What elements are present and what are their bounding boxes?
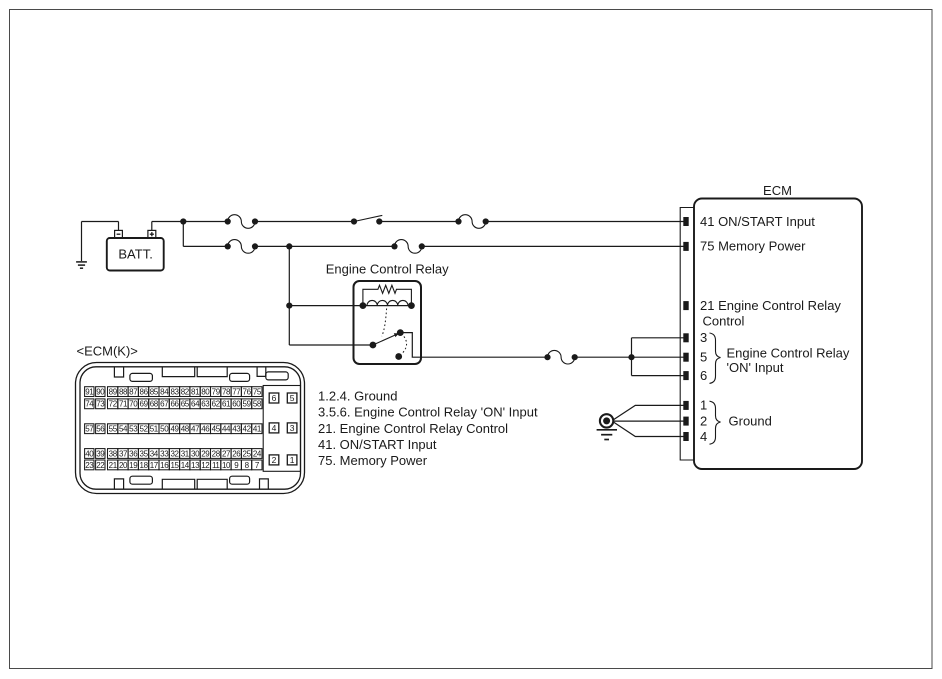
wire ground to battery negative	[82, 222, 119, 231]
svg-text:84: 84	[160, 387, 169, 396]
svg-text:12: 12	[201, 461, 210, 470]
svg-text:6: 6	[272, 393, 277, 403]
svg-text:77: 77	[232, 387, 241, 396]
wire J2 branch to relay switch common	[289, 344, 373, 346]
svg-text:88: 88	[119, 387, 128, 396]
svg-text:BATT.: BATT.	[118, 246, 152, 261]
svg-text:87: 87	[129, 387, 138, 396]
svg-text:68: 68	[150, 400, 159, 409]
ECM box U1	[694, 199, 862, 470]
svg-text:73: 73	[96, 400, 105, 409]
svg-text:6: 6	[700, 368, 707, 383]
svg-text:30: 30	[191, 449, 200, 458]
svg-text:15: 15	[170, 461, 179, 470]
pin 21 terminal	[683, 301, 688, 310]
svg-text:74: 74	[85, 400, 94, 409]
connector pin row 40-24	[85, 449, 262, 459]
connector bottom notches	[114, 476, 268, 489]
svg-text:67: 67	[160, 400, 169, 409]
svg-text:27: 27	[222, 449, 231, 458]
svg-text:83: 83	[170, 387, 179, 396]
svg-text:21. Engine Control Relay Contr: 21. Engine Control Relay Control	[318, 421, 508, 436]
svg-text:25: 25	[243, 449, 252, 458]
ECM title	[763, 183, 792, 198]
pin 41 terminal	[683, 217, 688, 226]
pin 41 label	[700, 214, 815, 229]
legend pin list	[318, 388, 538, 468]
pin 4 terminal	[683, 432, 688, 441]
wire ground to pin 1	[613, 405, 683, 419]
pin 2 label	[700, 413, 707, 428]
svg-text:47: 47	[191, 425, 200, 434]
svg-text:Control: Control	[703, 314, 745, 329]
svg-text:33: 33	[160, 449, 169, 458]
svg-text:3: 3	[290, 423, 295, 433]
svg-text:62: 62	[212, 400, 221, 409]
wire ground to pin 2	[613, 420, 683, 422]
svg-text:82: 82	[181, 387, 190, 396]
brace pins 1 2 4	[710, 401, 721, 444]
pin 6 label	[700, 368, 707, 383]
connector label ECM(K)	[77, 343, 138, 358]
wire F5 to node J4	[575, 356, 632, 358]
node J1 junction	[180, 218, 186, 224]
connector pin row 23-7	[85, 460, 262, 470]
svg-text:24: 24	[253, 449, 262, 458]
svg-text:52: 52	[140, 425, 149, 434]
svg-text:85: 85	[150, 387, 159, 396]
svg-text:41 ON/START Input: 41 ON/START Input	[700, 214, 815, 229]
connector power terminal 4	[269, 423, 279, 433]
svg-text:50: 50	[160, 425, 169, 434]
svg-text:71: 71	[119, 400, 128, 409]
relay armature dotted link	[382, 309, 387, 337]
svg-text:18: 18	[140, 461, 149, 470]
connector power terminal 2	[269, 455, 279, 465]
svg-text:69: 69	[140, 400, 149, 409]
wire ground to pin 4	[613, 422, 683, 437]
svg-text:75 Memory Power: 75 Memory Power	[700, 239, 806, 254]
pin 3 label	[700, 330, 707, 345]
relay coil suppression resistor	[363, 285, 412, 305]
svg-text:ECM: ECM	[763, 183, 792, 198]
svg-text:46: 46	[201, 425, 210, 434]
svg-text:66: 66	[170, 400, 179, 409]
svg-text:70: 70	[129, 400, 138, 409]
connector pin row 74-58	[85, 399, 262, 409]
svg-text:75: 75	[253, 387, 262, 396]
svg-text:10: 10	[222, 461, 231, 470]
ground G2 (ECM ground)	[597, 414, 617, 439]
svg-text:61: 61	[222, 400, 231, 409]
svg-text:26: 26	[232, 449, 241, 458]
ground G1 (battery ground)	[76, 222, 87, 269]
connector top notches	[114, 367, 288, 381]
wire F3 to F4	[255, 245, 395, 247]
svg-text:Ground: Ground	[729, 414, 772, 429]
svg-text:41. ON/START Input: 41. ON/START Input	[318, 437, 437, 452]
svg-text:21 Engine Control Relay: 21 Engine Control Relay	[700, 298, 841, 313]
svg-text:59: 59	[243, 400, 252, 409]
svg-text:63: 63	[201, 400, 210, 409]
svg-text:49: 49	[170, 425, 179, 434]
battery BATT.	[107, 230, 164, 270]
connector power-terminal section divider	[263, 386, 300, 472]
connector power terminal 1	[287, 455, 297, 465]
svg-text:23: 23	[85, 461, 94, 470]
connector pin row 57-41	[85, 424, 262, 434]
label Engine Control Relay 'ON' Input	[727, 346, 850, 376]
ignition switch SW1 (open contact)	[351, 215, 383, 224]
svg-text:86: 86	[140, 387, 149, 396]
svg-text:45: 45	[212, 425, 221, 434]
svg-text:29: 29	[201, 449, 210, 458]
svg-text:21: 21	[109, 461, 118, 470]
svg-text:81: 81	[191, 387, 200, 396]
node J4 junction	[628, 354, 634, 360]
svg-text:2: 2	[272, 455, 277, 465]
pin 1 label	[700, 398, 707, 413]
pin 5 label	[700, 350, 707, 365]
svg-text:4: 4	[700, 429, 707, 444]
node J2 junction	[286, 243, 292, 249]
svg-text:'ON' Input: 'ON' Input	[727, 360, 784, 375]
svg-text:56: 56	[96, 425, 105, 434]
wire F2 to ECM pin 41	[486, 221, 684, 223]
wire J1 down to row 2	[183, 222, 227, 247]
svg-text:3: 3	[700, 330, 707, 345]
wire J3 to relay coil	[289, 305, 363, 307]
fuse F3	[225, 240, 259, 254]
svg-text:Engine Control Relay: Engine Control Relay	[326, 262, 449, 277]
brace pins 3 5 6	[710, 333, 721, 383]
pin 4 label	[700, 429, 707, 444]
svg-text:19: 19	[129, 461, 138, 470]
svg-text:<ECM(K)>: <ECM(K)>	[77, 343, 138, 358]
svg-text:39: 39	[96, 449, 105, 458]
wire F1 to ignition switch	[255, 221, 354, 223]
svg-text:35: 35	[140, 449, 149, 458]
relay K1 box	[354, 281, 422, 364]
ECM connector strip	[680, 208, 694, 461]
pin 1 terminal	[683, 401, 688, 410]
svg-text:75. Memory Power: 75. Memory Power	[318, 453, 428, 468]
svg-text:54: 54	[119, 425, 128, 434]
svg-text:28: 28	[212, 449, 221, 458]
svg-text:78: 78	[222, 387, 231, 396]
svg-text:55: 55	[109, 425, 118, 434]
fuse F4	[391, 240, 425, 254]
connector power terminal 3	[287, 423, 297, 433]
svg-text:32: 32	[170, 449, 179, 458]
wire J2 down to relay	[288, 246, 290, 345]
pin 3 terminal	[683, 333, 688, 342]
svg-text:16: 16	[160, 461, 169, 470]
node J3 junction at coil wire	[286, 303, 292, 309]
svg-text:2: 2	[700, 413, 707, 428]
wire battery positive up to row 1	[152, 222, 228, 231]
wire F4 to ECM pin 75	[422, 245, 684, 247]
svg-text:53: 53	[129, 425, 138, 434]
svg-text:38: 38	[109, 449, 118, 458]
svg-text:44: 44	[222, 425, 231, 434]
svg-text:76: 76	[243, 387, 252, 396]
wire switch to F2	[379, 221, 458, 223]
fuse F5	[544, 350, 577, 364]
svg-text:58: 58	[253, 400, 262, 409]
wire relay output to F5	[400, 333, 547, 358]
svg-text:22: 22	[96, 461, 105, 470]
pin 5 terminal	[683, 353, 688, 362]
svg-text:34: 34	[150, 449, 159, 458]
connector power terminal 6	[269, 393, 279, 403]
svg-text:40: 40	[85, 449, 94, 458]
connector pin row 91-75	[85, 387, 262, 397]
relay coil L1	[360, 300, 415, 309]
svg-text:65: 65	[181, 400, 190, 409]
svg-text:60: 60	[232, 400, 241, 409]
svg-text:41: 41	[253, 425, 262, 434]
fuse F1	[225, 215, 259, 229]
pin 6 terminal	[683, 371, 688, 380]
svg-text:11: 11	[212, 461, 220, 470]
svg-text:5: 5	[290, 393, 295, 403]
svg-text:17: 17	[150, 461, 159, 470]
wire bus to pins 3 5 6	[632, 338, 684, 376]
svg-text:72: 72	[109, 400, 118, 409]
svg-text:36: 36	[129, 449, 138, 458]
svg-text:80: 80	[201, 387, 210, 396]
svg-text:14: 14	[181, 461, 190, 470]
pin 2 terminal	[683, 417, 688, 426]
svg-text:79: 79	[212, 387, 221, 396]
svg-text:Engine Control Relay: Engine Control Relay	[727, 346, 850, 361]
svg-text:43: 43	[232, 425, 241, 434]
svg-text:5: 5	[700, 350, 707, 365]
label Engine Control Relay	[326, 262, 449, 277]
svg-text:20: 20	[119, 461, 128, 470]
svg-text:37: 37	[119, 449, 128, 458]
svg-text:57: 57	[85, 425, 94, 434]
relay switch contacts	[370, 329, 407, 360]
svg-text:1: 1	[290, 455, 295, 465]
fuse F2	[455, 215, 488, 229]
svg-text:13: 13	[191, 461, 200, 470]
svg-text:4: 4	[272, 423, 277, 433]
pin 21 label	[700, 298, 841, 329]
svg-text:64: 64	[191, 400, 200, 409]
svg-text:1.2.4. Ground: 1.2.4. Ground	[318, 388, 398, 403]
label Ground	[729, 414, 772, 429]
svg-text:90: 90	[96, 387, 105, 396]
connector power terminal 5	[287, 393, 297, 403]
svg-text:51: 51	[150, 425, 159, 434]
svg-text:31: 31	[181, 449, 190, 458]
svg-text:91: 91	[85, 387, 94, 396]
svg-text:48: 48	[181, 425, 190, 434]
svg-text:89: 89	[109, 387, 118, 396]
pin 75 label	[700, 239, 806, 254]
pin 75 terminal	[683, 242, 688, 251]
svg-text:3.5.6. Engine Control Relay 'O: 3.5.6. Engine Control Relay 'ON' Input	[318, 405, 538, 420]
svg-text:1: 1	[700, 398, 707, 413]
svg-text:42: 42	[243, 425, 252, 434]
connector ECM(K) housing	[76, 363, 305, 494]
